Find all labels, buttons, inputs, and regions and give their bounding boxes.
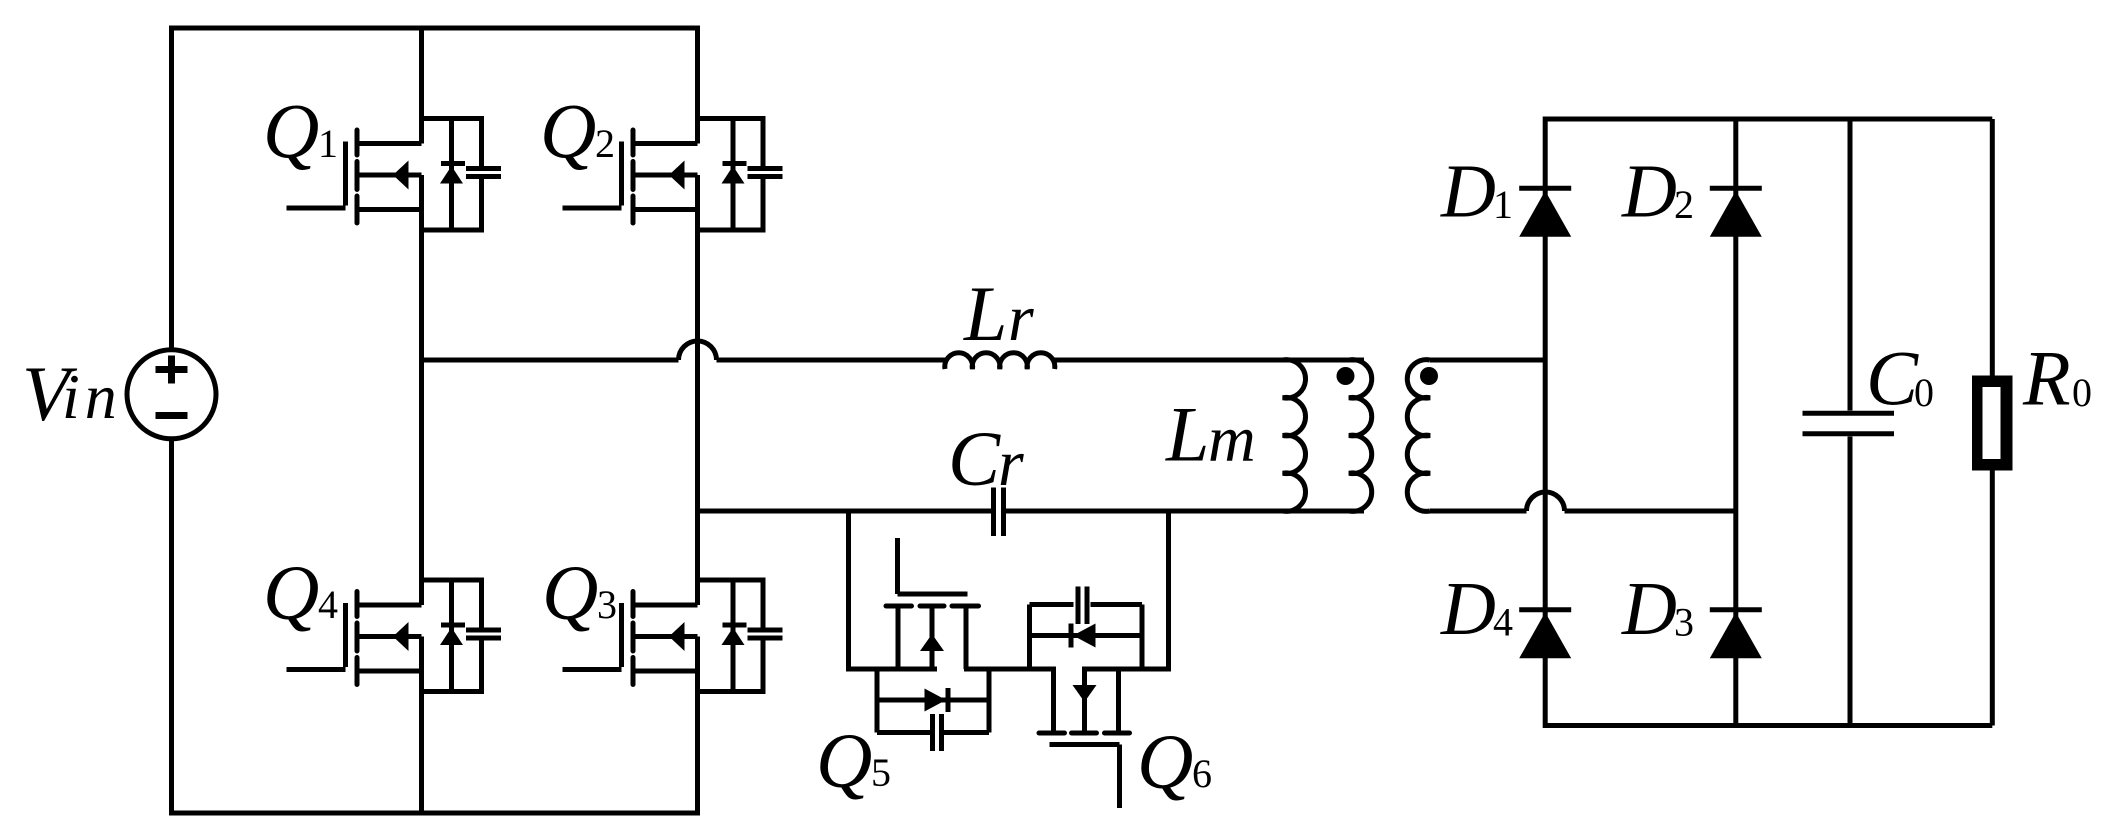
svg-text:4: 4 xyxy=(318,582,338,627)
capacitor C0 plates xyxy=(1803,413,1895,434)
wire Lr to transformer xyxy=(1053,358,1364,363)
svg-text:2: 2 xyxy=(595,121,615,166)
wire Q5 drain rail xyxy=(846,667,937,672)
wire bottom resonant rail left xyxy=(698,509,992,514)
inductor Lr xyxy=(945,353,1055,369)
svg-text:Q: Q xyxy=(263,87,319,174)
wire bottom bus xyxy=(172,811,698,816)
wire bridge top bus xyxy=(1545,117,1992,122)
capacitor Cr xyxy=(994,488,1004,537)
transistor Q4 xyxy=(287,592,422,685)
wire top bus xyxy=(172,26,698,31)
svg-text:1: 1 xyxy=(1493,182,1513,227)
svg-text:Q: Q xyxy=(1137,718,1193,805)
wire leg B (Q2/Q3) xyxy=(695,26,700,816)
wire bridge leg 2 xyxy=(1733,117,1738,729)
svg-text:3: 3 xyxy=(1674,600,1694,645)
svg-text:Q: Q xyxy=(263,549,319,636)
svg-text:6: 6 xyxy=(1192,751,1212,796)
diode D2 xyxy=(1710,188,1762,237)
svg-text:D: D xyxy=(1440,150,1496,234)
wire Q5Q6 left vertical xyxy=(846,511,851,672)
transformer secondary winding xyxy=(1407,360,1430,512)
transistor Q2 xyxy=(563,130,698,223)
svg-text:0: 0 xyxy=(2072,370,2092,415)
wire secondary bottom left xyxy=(1430,509,1527,514)
wire left vertical lower xyxy=(169,441,174,816)
wire leg A (Q1/Q4) xyxy=(419,26,424,816)
wire bottom resonant rail right xyxy=(1006,509,1364,514)
svg-text:4: 4 xyxy=(1493,600,1513,645)
svg-text:r: r xyxy=(1008,282,1034,355)
svg-text:D: D xyxy=(1621,567,1677,651)
primary dot xyxy=(1337,367,1355,385)
svg-text:2: 2 xyxy=(1674,182,1694,227)
wire hop over bridge leg xyxy=(1527,492,1565,511)
wire Q5-Q6 mid rail xyxy=(964,667,1056,672)
voltage source Vin xyxy=(127,350,216,439)
diode/capacitor box of Q6 xyxy=(1030,587,1143,670)
svg-text:L: L xyxy=(963,270,1007,357)
svg-text:C: C xyxy=(948,415,1001,502)
wire mid rail right xyxy=(717,358,947,363)
wire Q6 right rail xyxy=(1082,667,1171,672)
svg-text:D: D xyxy=(1440,567,1496,651)
inductor Lm winding xyxy=(1283,360,1306,512)
wire hop over leg B xyxy=(679,341,717,360)
svg-text:r: r xyxy=(998,427,1024,500)
transistor Q1 xyxy=(287,130,422,223)
diode D1 xyxy=(1519,188,1571,237)
resistor R0 xyxy=(1972,376,2013,471)
secondary dot xyxy=(1420,367,1438,385)
svg-text:m: m xyxy=(1208,403,1256,476)
svg-text:0: 0 xyxy=(1914,370,1934,415)
wire secondary bottom right xyxy=(1565,509,1736,514)
transistor Q5 xyxy=(886,538,979,669)
wire Q5Q6 right vertical xyxy=(1166,511,1171,672)
svg-text:Q: Q xyxy=(540,87,596,174)
svg-text:5: 5 xyxy=(871,750,891,795)
wire mid rail left xyxy=(422,358,679,363)
svg-text:C: C xyxy=(1866,335,1919,422)
svg-text:Q: Q xyxy=(542,549,598,636)
transistor Q6 xyxy=(1039,669,1130,808)
wire bridge bottom bus xyxy=(1545,723,1992,728)
svg-text:3: 3 xyxy=(597,582,617,627)
diode/capacitor box of Q5 xyxy=(877,669,989,751)
svg-text:1: 1 xyxy=(318,121,338,166)
resistor R0 branch wires xyxy=(1990,119,1995,726)
diode D3 xyxy=(1710,610,1762,659)
svg-text:L: L xyxy=(1165,391,1209,478)
transformer primary winding xyxy=(1349,360,1372,512)
svg-text:Q: Q xyxy=(816,717,872,804)
diode D4 xyxy=(1519,610,1571,659)
svg-text:in: in xyxy=(62,361,122,432)
capacitor C0 branch wires xyxy=(1848,119,1853,726)
svg-text:D: D xyxy=(1621,150,1677,234)
wire left vertical upper xyxy=(169,26,174,349)
wire bridge leg 1 xyxy=(1543,117,1548,729)
transistor Q3 xyxy=(563,592,698,685)
wire secondary top xyxy=(1430,358,1545,363)
svg-text:R: R xyxy=(2022,335,2071,422)
